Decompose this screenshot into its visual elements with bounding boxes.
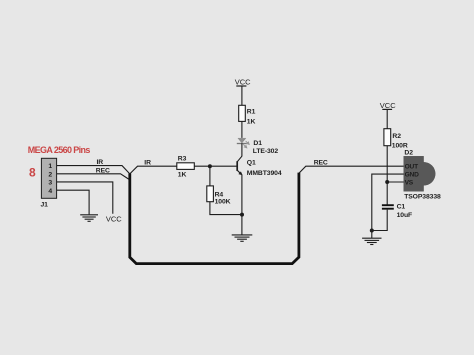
- LED D1: [237, 138, 279, 155]
- ground J1: [80, 215, 98, 222]
- svg-text:TSOP38338: TSOP38338: [404, 194, 441, 201]
- label REC (right): [314, 159, 328, 166]
- svg-text:REC: REC: [314, 159, 328, 166]
- junction VS node: [385, 180, 389, 184]
- wire pin4 to ground: [57, 190, 89, 214]
- svg-text:R1: R1: [247, 108, 256, 115]
- label IR (connector): [97, 159, 104, 166]
- resistor R4: [207, 186, 231, 206]
- svg-text:VCC: VCC: [235, 78, 251, 87]
- transistor Q1: [237, 156, 282, 177]
- svg-text:VCC: VCC: [380, 101, 396, 110]
- svg-text:R3: R3: [178, 156, 187, 163]
- wire pin1 IR: [57, 166, 130, 174]
- IR receiver D2 TSOP38338: [404, 156, 436, 191]
- supply VCC pin3: [106, 215, 122, 224]
- wire pin3 to VCC: [57, 182, 113, 214]
- wire C1 to ground node: [372, 210, 387, 231]
- svg-text:3: 3: [48, 180, 52, 187]
- svg-text:1K: 1K: [178, 172, 187, 179]
- svg-text:100K: 100K: [215, 199, 231, 206]
- svg-text:C1: C1: [397, 204, 406, 211]
- resistor R2: [384, 129, 408, 150]
- connector J1: [41, 158, 56, 198]
- wire VCC to R1: [241, 86, 243, 105]
- ground Q1 emitter: [232, 235, 253, 241]
- wire GND pin: [372, 174, 404, 230]
- svg-text:IR: IR: [144, 160, 151, 167]
- wire R2 down to C1: [386, 146, 388, 205]
- svg-text:MEGA 2560 Pins: MEGA 2560 Pins: [28, 145, 91, 155]
- svg-text:1K: 1K: [247, 119, 256, 126]
- wire VS pin: [387, 181, 403, 183]
- label D2: [404, 149, 413, 156]
- wire REC thick bus: [130, 173, 299, 264]
- svg-text:GND: GND: [405, 172, 419, 179]
- ground C1/TSOP: [362, 238, 381, 244]
- supply VCC R2: [380, 101, 396, 110]
- svg-text:OUT: OUT: [405, 164, 418, 171]
- wire R3 to base: [194, 165, 236, 167]
- wire R1 to D1: [241, 121, 243, 137]
- label TSOP38338: [404, 194, 441, 201]
- capacitor C1: [382, 204, 412, 219]
- svg-text:LTE-302: LTE-302: [253, 148, 279, 155]
- wire pin2 REC: [57, 174, 129, 180]
- wire D1 to collector: [241, 143, 243, 156]
- junction ground node: [370, 229, 374, 233]
- supply VCC R1: [235, 78, 251, 87]
- svg-text:100R: 100R: [392, 142, 408, 149]
- svg-text:10uF: 10uF: [397, 212, 412, 219]
- wire junction to R4: [209, 166, 211, 186]
- junction emitter node: [240, 213, 244, 217]
- wire node to ground: [371, 231, 373, 239]
- svg-text:R4: R4: [215, 191, 224, 198]
- label J1: [41, 202, 49, 209]
- svg-text:Q1: Q1: [247, 160, 256, 167]
- svg-text:MMBT3904: MMBT3904: [247, 170, 282, 177]
- wire emitter to ground: [241, 175, 243, 235]
- svg-text:1: 1: [48, 163, 52, 170]
- wire REC riser to TSOP: [299, 166, 404, 173]
- svg-text:IR: IR: [97, 159, 104, 166]
- svg-text:REC: REC: [96, 168, 110, 175]
- svg-text:VS: VS: [405, 179, 414, 186]
- svg-text:D2: D2: [404, 149, 413, 156]
- wire R4 to emitter node: [210, 202, 242, 215]
- wire VCC to R2: [386, 110, 388, 129]
- title MEGA 2560 Pins: [28, 145, 91, 155]
- label REC (connector): [96, 168, 110, 175]
- junction base node: [208, 164, 212, 168]
- svg-text:VCC: VCC: [106, 215, 122, 224]
- resistor R1: [239, 105, 256, 125]
- label IR (mid): [144, 160, 151, 167]
- svg-text:J1: J1: [41, 202, 49, 209]
- pin count 8: [29, 166, 36, 180]
- svg-text:R2: R2: [392, 133, 401, 140]
- svg-text:2: 2: [48, 171, 52, 178]
- svg-text:D1: D1: [253, 140, 262, 147]
- svg-text:8: 8: [29, 166, 36, 180]
- wire IR to R3: [130, 166, 177, 174]
- resistor R3: [177, 156, 195, 179]
- svg-text:4: 4: [48, 188, 52, 195]
